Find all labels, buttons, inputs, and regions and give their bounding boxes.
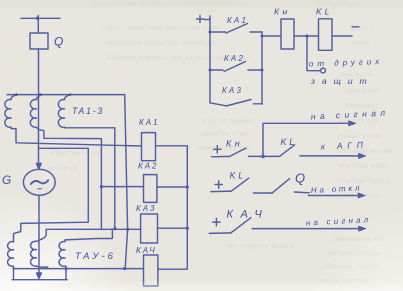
svg-text:к АГП: к АГП: [321, 139, 368, 151]
svg-text:KL: KL: [281, 137, 298, 147]
svg-text:КА3: КА3: [136, 204, 157, 213]
svg-text:КАЧ: КАЧ: [136, 246, 157, 255]
svg-text:КА2: КА2: [224, 54, 245, 63]
svg-text:КАЧ: КАЧ: [227, 209, 270, 221]
svg-text:Кн: Кн: [226, 139, 243, 149]
svg-text:КА1: КА1: [139, 118, 160, 127]
svg-text:G: G: [2, 173, 11, 187]
svg-text:защит: защит: [310, 76, 374, 86]
svg-text:KL: KL: [316, 7, 332, 17]
svg-text:КА3: КА3: [222, 86, 243, 95]
svg-text:КА1: КА1: [227, 16, 248, 25]
svg-text:Q: Q: [54, 35, 63, 49]
svg-text:от других: от других: [309, 57, 384, 69]
svg-text:КА2: КА2: [138, 162, 159, 171]
svg-text:Q: Q: [295, 171, 305, 186]
svg-text:на сигнал: на сигнал: [311, 107, 390, 121]
svg-text:KL: KL: [230, 171, 247, 181]
svg-text:Кн: Кн: [274, 7, 291, 17]
svg-text:TAУ-6: TAУ-6: [75, 251, 116, 262]
svg-text:на сигнал: на сигнал: [306, 215, 372, 227]
svg-text:На откл: На откл: [311, 183, 363, 195]
svg-text:TA1-3: TA1-3: [72, 106, 104, 116]
